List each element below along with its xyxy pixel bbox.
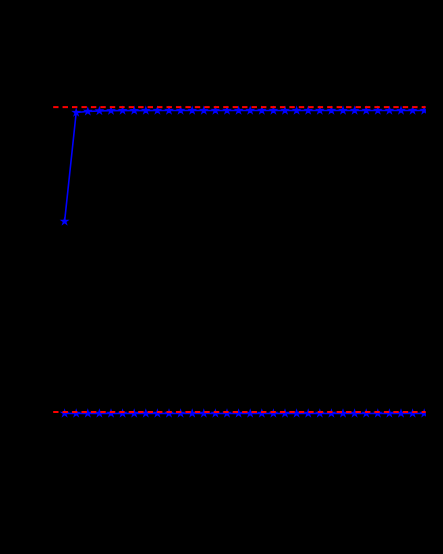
top series star markers (blue) bbox=[61, 106, 428, 224]
bottom series star markers (blue) bbox=[61, 409, 428, 416]
top series line (blue) bbox=[65, 111, 426, 222]
bottom reference line (red dashed) bbox=[53, 411, 426, 413]
bottom series line (blue) bbox=[65, 412, 426, 414]
top reference line (red dashed) bbox=[53, 106, 426, 108]
